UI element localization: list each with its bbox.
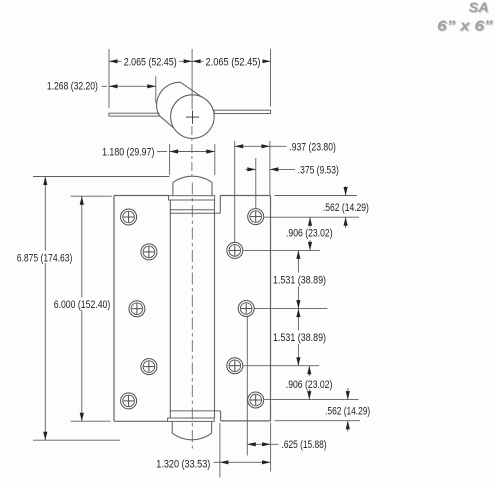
svg-text:1.531 (38.89): 1.531 (38.89) [273, 274, 326, 286]
svg-text:1.268 (32.20): 1.268 (32.20) [47, 81, 98, 93]
svg-text:.906 (23.02): .906 (23.02) [286, 227, 333, 239]
svg-text:SA: SA [469, 0, 489, 15]
svg-text:2.065 (52.45): 2.065 (52.45) [206, 56, 261, 68]
svg-text:1.320 (33.53): 1.320 (33.53) [156, 458, 210, 470]
svg-text:6.000 (152.40): 6.000 (152.40) [54, 299, 111, 311]
svg-text:1.180 (29.97): 1.180 (29.97) [102, 146, 154, 158]
svg-text:2.065 (52.45): 2.065 (52.45) [124, 56, 177, 68]
svg-text:.937 (23.80): .937 (23.80) [289, 141, 336, 153]
svg-text:.375 (9.53): .375 (9.53) [298, 164, 339, 176]
svg-text:.906 (23.02): .906 (23.02) [286, 379, 333, 391]
svg-text:.562 (14.29): .562 (14.29) [325, 406, 370, 418]
svg-text:1.531 (38.89): 1.531 (38.89) [273, 332, 326, 344]
svg-text:.562 (14.29): .562 (14.29) [323, 202, 369, 214]
svg-text:6” x 6”: 6” x 6” [437, 19, 493, 35]
svg-text:6.875 (174.63): 6.875 (174.63) [17, 252, 73, 264]
svg-text:.625 (15.88): .625 (15.88) [282, 439, 327, 451]
